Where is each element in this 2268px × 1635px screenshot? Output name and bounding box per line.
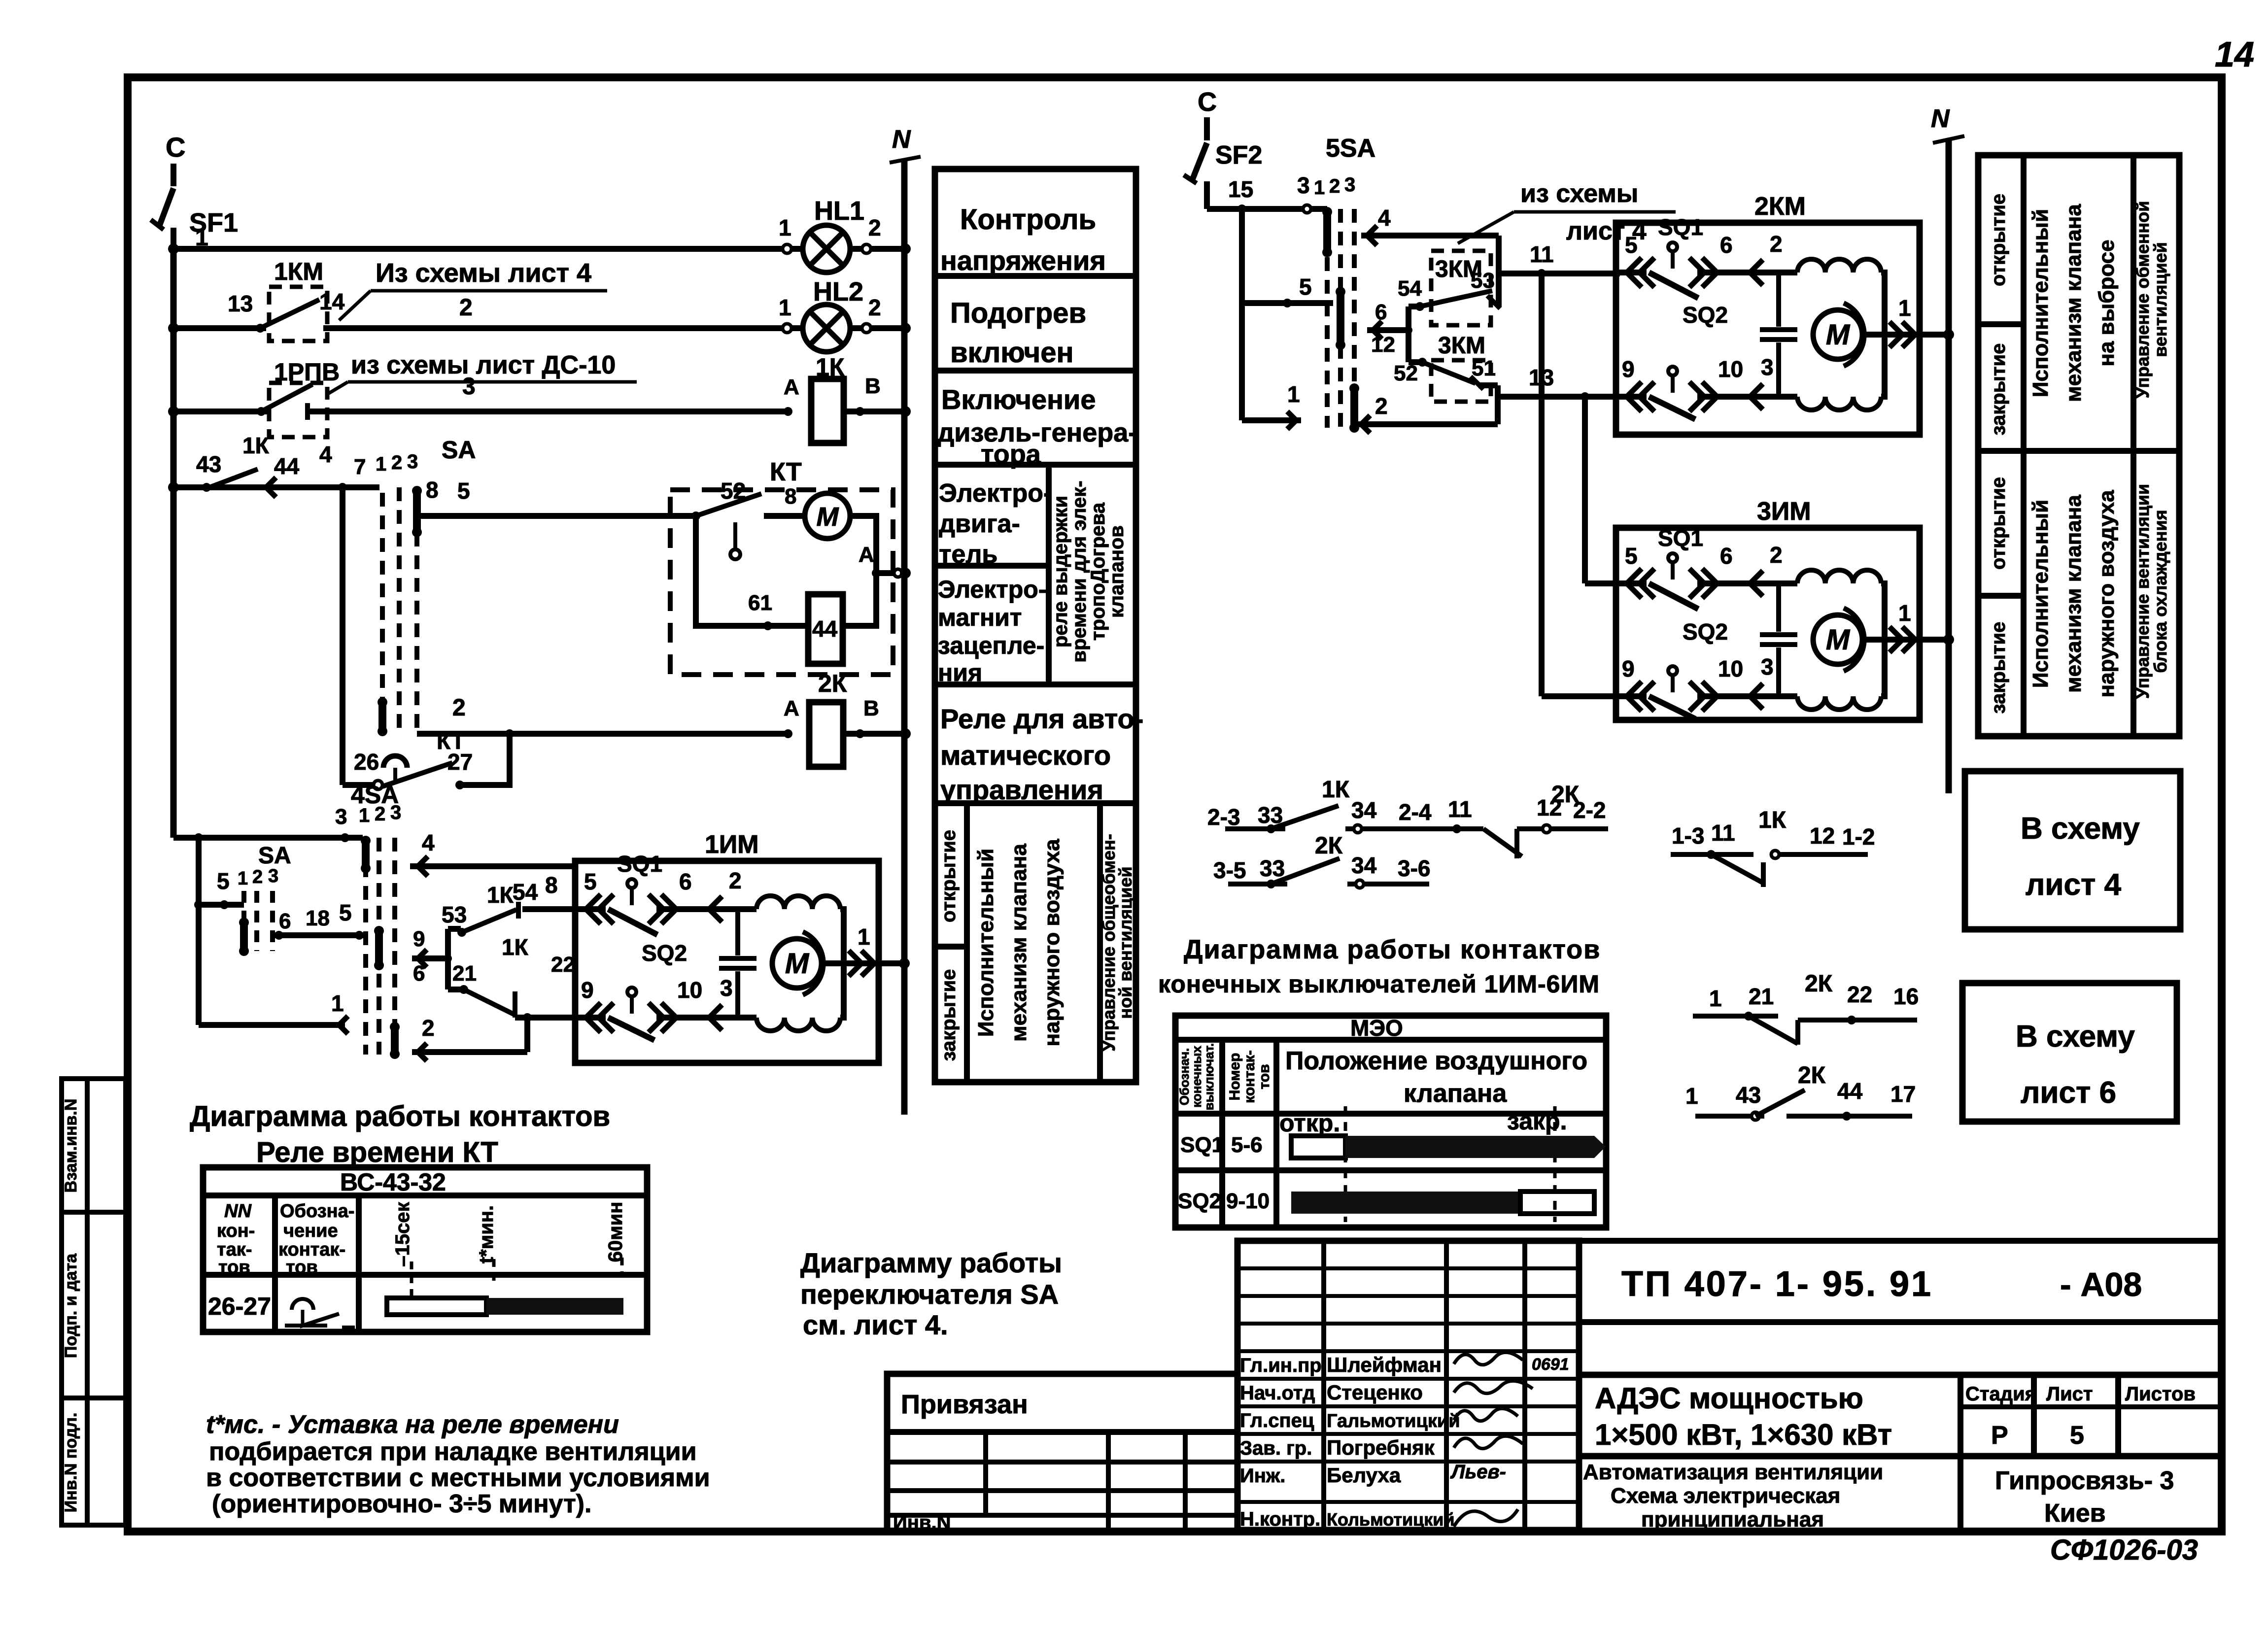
left vertical bus wire (171, 249, 177, 838)
svg-text:2: 2 (868, 295, 881, 320)
svg-text:А: А (784, 375, 799, 399)
svg-text:HL1: HL1 (814, 196, 864, 226)
svg-text:2К: 2К (1315, 833, 1343, 859)
branch wire 54 down (1406, 307, 1411, 362)
svg-text:12: 12 (1371, 333, 1395, 357)
svg-text:открытие: открытие (1988, 477, 2009, 570)
svg-text:Гальмотицкий: Гальмотицкий (1327, 1411, 1460, 1431)
2КМ motor M (1813, 310, 1862, 359)
svg-text:Контроль: Контроль (960, 204, 1096, 236)
svg-text:SA: SA (442, 436, 476, 464)
svg-text:двига-: двига- (939, 510, 1020, 538)
svg-text:механизм клапана: механизм клапана (2062, 204, 2086, 402)
wire 11 to 2KM (1499, 271, 1620, 276)
svg-text:клапана: клапана (1404, 1079, 1507, 1108)
svg-text:44: 44 (274, 453, 300, 479)
wire rung 1 to 4SA (199, 1022, 345, 1028)
svg-text:2: 2 (1770, 542, 1783, 568)
table ВС-43-32 frame (203, 1167, 647, 1332)
svg-text:SQ1: SQ1 (1658, 525, 1703, 551)
svg-text:1: 1 (1898, 295, 1911, 321)
contact diagram 2K 11-12 break contact (1452, 824, 1461, 833)
table МЭО frame (1175, 1016, 1606, 1227)
svg-text:закрытие: закрытие (1988, 343, 2009, 436)
svg-text:11: 11 (1448, 796, 1472, 822)
wire 1K to N bus (844, 409, 905, 414)
svg-text:10: 10 (1718, 656, 1743, 681)
svg-text:14: 14 (2215, 35, 2254, 74)
contactor contact 3KM lower (1431, 360, 1491, 402)
wire rung 4 right (1361, 233, 1499, 238)
svg-text:5: 5 (584, 869, 597, 894)
right table frame (1978, 155, 2179, 736)
svg-text:принципиальная: принципиальная (1641, 1507, 1824, 1532)
wire rung 6-12 (1373, 321, 1382, 339)
svg-text:(ориентировочно- 3÷5 минут).: (ориентировочно- 3÷5 минут). (212, 1490, 591, 1518)
KT wire node A to N bus (876, 570, 905, 576)
svg-text:ной вентиляцией: ной вентиляцией (1115, 866, 1135, 1019)
svg-text:9: 9 (1622, 356, 1635, 382)
3ИМ SQ2 contact row (1615, 693, 1647, 699)
wire rung 5 right (1242, 300, 1333, 306)
svg-text:1: 1 (779, 215, 791, 240)
svg-text:43: 43 (1736, 1082, 1761, 1108)
KT contact symbol in table (292, 1299, 313, 1310)
svg-text:1КМ: 1КМ (274, 258, 323, 285)
svg-text:Обозна-: Обозна- (280, 1201, 354, 1222)
svg-text:2-4: 2-4 (1399, 799, 1432, 825)
svg-text:Подогрев: Подогрев (950, 297, 1086, 329)
KT wire motor to node A (850, 516, 876, 573)
svg-text:11: 11 (1711, 820, 1735, 846)
svg-text:Положение воздушного: Положение воздушного (1285, 1047, 1587, 1075)
svg-text:1К: 1К (242, 433, 270, 458)
svg-text:NN: NN (224, 1201, 252, 1222)
selector switch 4SA dashed columns (363, 841, 368, 1055)
svg-text:Листов: Листов (2125, 1383, 2196, 1405)
svg-text:8: 8 (426, 477, 439, 503)
svg-text:1К: 1К (1758, 807, 1787, 833)
wire branch 11 down to 3ИМ (1539, 273, 1545, 696)
svg-text:из схемы: из схемы (1520, 179, 1638, 208)
svg-text:зацепле-: зацепле- (938, 632, 1044, 659)
svg-text:SQ2: SQ2 (1178, 1189, 1221, 1213)
svg-text:8: 8 (545, 872, 558, 898)
selector switch SA2 dashed columns (241, 891, 246, 951)
svg-text:В: В (863, 696, 879, 720)
svg-text:6: 6 (1720, 232, 1733, 258)
svg-text:3: 3 (1344, 174, 1355, 196)
wire top rung to 5SA (1207, 206, 1327, 212)
svg-text:В схему: В схему (2016, 1020, 2135, 1054)
svg-text:3: 3 (390, 802, 401, 823)
svg-text:Лист: Лист (2046, 1383, 2093, 1405)
wire rung 4 from 4SA (410, 863, 575, 869)
svg-text:из схемы лист ДС-10: из схемы лист ДС-10 (351, 351, 616, 379)
description table row lines (935, 273, 1136, 279)
svg-text:44: 44 (812, 616, 838, 642)
signatures (1454, 1352, 1523, 1364)
branch wire below rung 3 (196, 838, 202, 1025)
3ИМ capacitor (1776, 583, 1781, 632)
svg-text:17: 17 (1890, 1081, 1916, 1107)
wire 2 to HL2 (323, 325, 803, 331)
svg-text:откр.: откр. (1279, 1109, 1340, 1137)
svg-text:SF2: SF2 (1215, 141, 1262, 170)
svg-text:2К: 2К (1798, 1062, 1826, 1089)
svg-text:1-3: 1-3 (1672, 823, 1704, 849)
svg-text:Исполнительный: Исполнительный (974, 849, 998, 1037)
1ИМ output terminal 1 wire to N bus (844, 960, 904, 966)
svg-text:Льев-: Льев- (1450, 1461, 1506, 1483)
svg-text:SQ2: SQ2 (642, 940, 687, 966)
svg-text:Шлейфман: Шлейфман (1327, 1353, 1442, 1376)
svg-text:тов: тов (286, 1257, 318, 1278)
box В схему лист 4 (1965, 771, 2180, 929)
5SA column 2 contact bar (1337, 292, 1344, 345)
1ИМ stator coil upper (738, 906, 756, 912)
circuit breaker SF1 (159, 188, 173, 228)
wire rung 3 to 4SA (173, 835, 363, 841)
svg-text:тель: тель (939, 540, 997, 569)
svg-text:13: 13 (228, 291, 253, 316)
svg-text:Диаграмма работы контактов: Диаграмма работы контактов (1184, 935, 1601, 964)
wire rung 43-44 (173, 484, 379, 490)
wire branch 13 down to 3ИМ (1582, 397, 1588, 583)
svg-text:Автоматизация вентиляции: Автоматизация вентиляции (1583, 1460, 1883, 1484)
svg-text:34: 34 (1351, 852, 1377, 878)
svg-text:61: 61 (748, 591, 772, 615)
4SA column 3 contact bar (391, 1027, 399, 1054)
table МЭО dashed ticks (1344, 1106, 1347, 1222)
KT branch to relay 44 (696, 516, 808, 626)
svg-text:5: 5 (2070, 1421, 2084, 1450)
svg-text:6: 6 (1375, 300, 1387, 324)
svg-text:Инв.N: Инв.N (893, 1512, 951, 1533)
wire 2K to N bus (843, 731, 905, 737)
selector switch 5SA dashed columns (1325, 212, 1330, 428)
3ИМ stator coil lower (1779, 693, 1797, 699)
wire rung 2 bottom (412, 1049, 527, 1055)
svg-text:вентиляцией: вентиляцией (2150, 242, 2170, 357)
svg-text:5: 5 (1625, 232, 1638, 258)
svg-text:2: 2 (868, 215, 881, 240)
3ИМ output terminal 1 wire to N bus (1885, 637, 1949, 643)
actuator block 1ИМ box (575, 861, 879, 1063)
svg-text:2: 2 (729, 868, 742, 893)
svg-text:Подп. и дата: Подп. и дата (62, 1253, 80, 1358)
svg-text:Киев: Киев (2044, 1499, 2106, 1528)
right table midline (1978, 448, 2179, 454)
svg-text:2: 2 (422, 1015, 435, 1041)
svg-text:М: М (785, 948, 810, 980)
svg-text:C: C (166, 132, 185, 163)
svg-text:33: 33 (1260, 855, 1285, 881)
svg-text:тов: тов (218, 1257, 250, 1278)
svg-text:1×500 кВт, 1×630 кВт: 1×500 кВт, 1×630 кВт (1595, 1418, 1892, 1451)
description row7 dividers (964, 803, 970, 1082)
svg-text:3ИМ: 3ИМ (1757, 497, 1811, 526)
svg-text:2: 2 (1329, 175, 1340, 197)
left margin strip boxes (62, 1079, 126, 1525)
svg-text:Электро-: Электро- (938, 576, 1046, 603)
svg-text:3-5: 3-5 (1213, 857, 1246, 883)
svg-text:наружного воздуха: наружного воздуха (1040, 839, 1064, 1046)
svg-text:SQ2: SQ2 (1683, 302, 1728, 328)
svg-text:конечных выключателей 1ИМ-6ИМ: конечных выключателей 1ИМ-6ИМ (1158, 970, 1600, 998)
svg-text:Исполнительный: Исполнительный (2028, 500, 2053, 688)
svg-text:43: 43 (196, 451, 221, 477)
table Привязан frame (887, 1374, 1237, 1532)
svg-text:3: 3 (720, 975, 733, 1001)
svg-text:3-6: 3-6 (1398, 855, 1430, 881)
selector switch SA dashed columns (380, 493, 385, 734)
svg-text:чение: чение (283, 1221, 338, 1241)
svg-text:10: 10 (1718, 356, 1743, 382)
svg-text:лист 4: лист 4 (2026, 868, 2122, 902)
svg-text:Реле времени КТ: Реле времени КТ (256, 1136, 498, 1168)
svg-text:8: 8 (785, 484, 796, 509)
svg-text:SQ2: SQ2 (1683, 619, 1728, 645)
svg-text:управления: управления (940, 774, 1103, 805)
2КМ SQ1 contact row (1615, 270, 1647, 275)
svg-text:2: 2 (459, 295, 473, 321)
svg-text:3: 3 (1297, 172, 1310, 198)
svg-text:12: 12 (1810, 823, 1835, 849)
svg-text:закрытие: закрытие (1988, 622, 2009, 714)
svg-text:Взам.инв.N: Взам.инв.N (62, 1099, 80, 1193)
3ИМ SQ1 contact row (1615, 580, 1647, 586)
title block stage columns (1958, 1375, 1963, 1530)
svg-text:Р: Р (1991, 1421, 2008, 1450)
svg-text:HL2: HL2 (813, 277, 863, 307)
svg-text:в соответствии с местными усло: в соответствии с местными условиями (206, 1464, 710, 1492)
svg-text:Включение: Включение (941, 384, 1096, 415)
svg-text:21: 21 (1749, 984, 1774, 1009)
svg-text:Стадия: Стадия (1965, 1383, 2036, 1405)
right table col1 dividers (1978, 321, 2024, 327)
SA column 1 contact bar (378, 702, 386, 731)
title block signature table frame (1237, 1241, 1579, 1530)
svg-text:Гл.спец: Гл.спец (1240, 1410, 1314, 1431)
svg-text:на выбросе: на выбросе (2095, 239, 2119, 366)
svg-text:1-2: 1-2 (1842, 824, 1875, 850)
svg-text:SQ1: SQ1 (1180, 1133, 1224, 1157)
description table row4/5 divider (1046, 465, 1052, 684)
svg-text:тора: тора (981, 440, 1041, 469)
SA2 column 1 contact bar (240, 922, 248, 951)
svg-text:1К: 1К (502, 934, 529, 960)
wire HL1 to N bus (850, 246, 905, 252)
1ИМ motor M (772, 939, 822, 988)
branch wire 53-21 (445, 929, 451, 989)
svg-text:Нач.отд: Нач.отд (1240, 1382, 1315, 1404)
svg-text:2КМ: 2КМ (1754, 192, 1806, 221)
svg-text:1: 1 (1314, 177, 1325, 199)
svg-text:Гипросвязь- 3: Гипросвязь- 3 (1995, 1466, 2174, 1495)
actuator block 3ИМ box (1616, 528, 1920, 720)
svg-text:Номер: Номер (1227, 1053, 1243, 1101)
svg-text:ВС-43-32: ВС-43-32 (340, 1168, 446, 1196)
svg-text:4: 4 (1378, 205, 1391, 231)
svg-text:22: 22 (1847, 982, 1872, 1007)
svg-text:1РПВ: 1РПВ (274, 358, 340, 386)
wire 3 to relay 1K (308, 409, 788, 414)
svg-text:5: 5 (1625, 543, 1638, 569)
svg-text:2: 2 (1770, 231, 1783, 257)
wire rung 26-27 (343, 782, 378, 788)
svg-text:переключателя SA: переключателя SA (800, 1279, 1059, 1310)
svg-text:6: 6 (679, 869, 692, 894)
svg-text:МЭО: МЭО (1350, 1015, 1403, 1041)
svg-text:1: 1 (1709, 986, 1722, 1011)
svg-text:2: 2 (391, 452, 402, 474)
svg-text:3: 3 (1761, 354, 1774, 380)
svg-text:1: 1 (359, 805, 370, 826)
svg-text:Кольмотицкий: Кольмотицкий (1327, 1509, 1455, 1530)
wire rung 2 (2K coil rung) (417, 731, 788, 737)
svg-text:открытие: открытие (938, 830, 960, 922)
svg-text:2: 2 (252, 867, 263, 887)
title block designation box (1579, 1241, 2222, 1322)
KT wire 44 to node A (843, 573, 876, 626)
svg-text:Диаграмму работы: Диаграмму работы (800, 1247, 1062, 1278)
actuator block 2КМ box (1616, 223, 1920, 435)
svg-text:напряжения: напряжения (940, 245, 1106, 276)
svg-text:Инв.N подл.: Инв.N подл. (62, 1413, 80, 1513)
wire rung 1 to HL1 (173, 246, 803, 252)
svg-text:ТП 407- 1- 95. 91: ТП 407- 1- 95. 91 (1621, 1264, 1933, 1304)
3ИМ stator coil upper (1779, 580, 1797, 586)
svg-text:КТ: КТ (770, 458, 802, 486)
2КМ SQ2 contact row (1615, 394, 1647, 400)
svg-text:Зав. гр.: Зав. гр. (1240, 1437, 1312, 1459)
1ИМ SQ2 contact row (574, 1015, 606, 1021)
svg-text:4: 4 (422, 830, 435, 855)
svg-text:лист 6: лист 6 (2021, 1076, 2116, 1110)
svg-text:1К: 1К (487, 882, 514, 908)
svg-text:Реле для авто-: Реле для авто- (940, 703, 1143, 734)
svg-text:М: М (817, 502, 839, 532)
svg-text:SA: SA (258, 843, 291, 869)
wire 13 to 2KM (1498, 394, 1620, 400)
svg-text:4: 4 (319, 442, 332, 467)
svg-text:тов: тов (1256, 1064, 1272, 1089)
svg-text:ния: ния (938, 659, 982, 686)
svg-text:включен: включен (950, 337, 1074, 369)
svg-text:А: А (784, 696, 799, 720)
right table verticals (2021, 155, 2027, 736)
svg-text:1: 1 (376, 453, 386, 475)
svg-text:3КМ: 3КМ (1438, 333, 1485, 359)
svg-text:Электро-: Электро- (939, 479, 1052, 508)
svg-text:1ИМ: 1ИМ (705, 830, 759, 859)
svg-text:5: 5 (217, 868, 230, 894)
svg-text:2: 2 (1375, 393, 1388, 419)
svg-text:15: 15 (1228, 176, 1253, 202)
time relay block KT dashed box (670, 490, 893, 675)
svg-text:60мин: 60мин (605, 1202, 626, 1262)
4SA column 2 contact bar (375, 931, 383, 965)
svg-text:1: 1 (858, 924, 870, 950)
svg-text:5: 5 (339, 900, 352, 925)
5SA column 1 contact bar (1323, 212, 1331, 252)
svg-text:2К: 2К (818, 670, 847, 697)
svg-text:3: 3 (268, 866, 278, 886)
svg-text:1: 1 (1898, 600, 1911, 626)
svg-text:Привязан: Привязан (901, 1390, 1028, 1419)
svg-text:9: 9 (581, 977, 594, 1003)
svg-text:1: 1 (331, 990, 344, 1016)
svg-text:В схему: В схему (2021, 812, 2140, 846)
svg-text:3: 3 (335, 805, 347, 829)
svg-text:9-10: 9-10 (1226, 1189, 1270, 1213)
2КМ stator coil upper (1779, 270, 1797, 275)
svg-text:Н.контр.: Н.контр. (1240, 1508, 1320, 1530)
svg-text:кон-: кон- (217, 1221, 255, 1241)
wire rung 3 from bus (173, 409, 268, 414)
wire rung 2 right (1361, 415, 1370, 433)
title block row line (1579, 1372, 2222, 1378)
svg-text:Схема электрическая: Схема электрическая (1611, 1484, 1840, 1508)
svg-text:Инж.: Инж. (1240, 1465, 1285, 1487)
table ВС timing bar (387, 1298, 486, 1315)
svg-text:14: 14 (319, 289, 345, 314)
svg-text:Из схемы лист 4: Из схемы лист 4 (376, 258, 591, 288)
svg-text:1: 1 (238, 868, 248, 889)
svg-text:6: 6 (279, 909, 291, 933)
circuit breaker SF2 (1192, 143, 1207, 181)
svg-text:2: 2 (452, 695, 466, 721)
svg-text:51: 51 (1472, 356, 1496, 380)
svg-text:34: 34 (1351, 797, 1377, 823)
svg-text:клапанов: клапанов (1106, 525, 1128, 618)
svg-text:22: 22 (551, 953, 575, 977)
3ИМ motor M (1813, 615, 1862, 664)
svg-text:16: 16 (1893, 984, 1919, 1009)
svg-text:Управление обменной: Управление обменной (2132, 201, 2153, 399)
svg-text:5-6: 5-6 (1231, 1133, 1263, 1157)
svg-text:26: 26 (354, 749, 379, 775)
svg-text:Погребняк: Погребняк (1327, 1436, 1435, 1459)
2КМ stator coil lower (1779, 394, 1797, 400)
KT relay coil 44 (808, 594, 843, 664)
svg-text:см. лист 4.: см. лист 4. (803, 1309, 948, 1340)
svg-text:26-27: 26-27 (208, 1293, 271, 1320)
svg-text:21: 21 (452, 961, 477, 986)
svg-text:18: 18 (306, 906, 330, 930)
svg-text:СФ1026-03: СФ1026-03 (2050, 1534, 2198, 1566)
svg-text:6: 6 (1720, 543, 1733, 569)
svg-text:–15сек: –15сек (392, 1201, 413, 1266)
svg-text:54: 54 (1398, 276, 1422, 301)
wire 27 up to rung 2 (460, 734, 510, 785)
svg-text:М: М (1826, 319, 1851, 351)
1ИМ capacitor (735, 909, 740, 955)
svg-text:1К: 1К (1322, 777, 1350, 803)
box В схему лист 6 (1962, 983, 2177, 1122)
svg-text:наружного воздуха: наружного воздуха (2095, 490, 2119, 697)
svg-text:закр.: закр. (1507, 1107, 1567, 1135)
svg-text:7: 7 (354, 455, 366, 479)
svg-text:2: 2 (375, 803, 385, 825)
svg-text:SQ1: SQ1 (617, 851, 662, 877)
svg-text:Диаграмма работы контактов: Диаграмма работы контактов (190, 1100, 610, 1132)
svg-text:контак-: контак- (1241, 1050, 1258, 1103)
svg-text:11: 11 (1530, 241, 1554, 267)
svg-text:магнит: магнит (938, 604, 1022, 631)
svg-text:N: N (1931, 104, 1950, 133)
